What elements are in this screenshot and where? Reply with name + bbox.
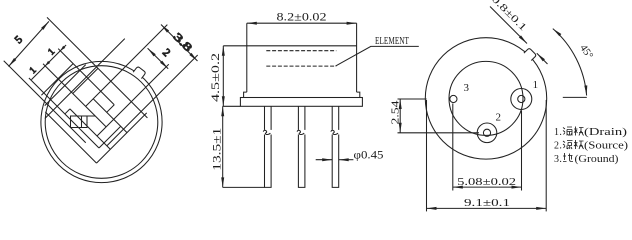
finger cap e [99, 126, 121, 148]
svg-text:3.8: 3.8 [171, 31, 195, 55]
svg-text:φ0.45: φ0.45 [354, 150, 384, 162]
dimension 3.8 line [161, 25, 198, 62]
dimension 2.54 line [399, 99, 401, 133]
pin break symbol 1 [263, 130, 272, 135]
bond pad rectangles [71, 116, 96, 128]
electrode finger row 6 + extension for dim 5 [4, 61, 86, 143]
dim text 4.5 rotated [210, 53, 222, 102]
svg-text:3.: 3. [554, 154, 562, 165]
dimension 9.1 line [427, 207, 547, 209]
dimension 5 (die side) [9, 21, 49, 66]
pitch dim arrowhead a [59, 46, 65, 52]
dimension 2 line [148, 48, 169, 68]
dimension 5.08 extension left [452, 104, 454, 191]
pitch dim text 1 (upper) [47, 47, 58, 58]
svg-text:2.54: 2.54 [391, 100, 402, 125]
dimension 13.5 line [222, 106, 224, 187]
dimension 8.2 line [247, 22, 357, 24]
can outer circle (top view) [41, 61, 162, 182]
dimension 9.1 extension right [545, 100, 547, 211]
pin 1 [518, 95, 525, 102]
svg-text:45°: 45° [577, 43, 594, 61]
orientation tab (left view) [133, 66, 146, 78]
svg-text:1.: 1. [554, 127, 562, 138]
svg-text:3: 3 [463, 82, 469, 94]
can top edge + extension to 4.5 dim [223, 45, 356, 47]
svg-text:0.8±0.1: 0.8±0.1 [489, 0, 529, 34]
pin 1 glass bead [511, 89, 532, 110]
45 degree arc [553, 29, 587, 96]
pin 3 [450, 95, 457, 102]
svg-text:(Drain): (Drain) [584, 127, 627, 138]
fake CJK glyphs for 漏极 / 源极 / 地 [563, 127, 584, 136]
dimension 2.54 extension top [398, 98, 427, 100]
finger cap b + extension line to dim 3.8 [86, 25, 168, 107]
svg-text:(Source): (Source) [584, 141, 628, 152]
13.5 bottom extension to pin [223, 186, 265, 188]
pin 2 [483, 129, 490, 136]
dimension 4.5 line [222, 46, 224, 107]
dimension 9.1 extension left [426, 100, 428, 211]
flange bottom extension to dims [223, 105, 241, 107]
svg-text:5.08±0.02: 5.08±0.02 [457, 176, 516, 188]
electrode inset border segment [73, 68, 98, 93]
pin break symbol 2 [297, 130, 306, 135]
pitch dim arrowhead b [44, 61, 50, 67]
electrode finger row 5 + extension to pitch dim [29, 78, 99, 148]
pin 2 (side view) [298, 106, 305, 187]
dim text 2.54 rotated [391, 100, 402, 125]
svg-text:2: 2 [496, 112, 502, 124]
dim text 13.5 rotated [211, 127, 223, 170]
sensor die (rotated square) with interdigitated electrode pattern [0, 0, 204, 169]
can right side + extension [356, 23, 358, 92]
svg-text:ELEMENT: ELEMENT [375, 36, 409, 47]
electrode finger row 2 [93, 99, 127, 133]
can bottom step left [244, 92, 247, 97]
phi 0.45 dimension arrows [316, 159, 333, 161]
stray electrode lines outside die [45, 65, 86, 106]
dim text 45deg rotated [577, 43, 594, 61]
svg-text:13.5±1: 13.5±1 [211, 127, 223, 170]
dimension 5.08 line [453, 186, 522, 188]
finger cap d [65, 109, 70, 114]
dim 5 text [13, 33, 26, 46]
can left side + extension [246, 23, 248, 92]
dim text 0.8±0.1 rotated 45 [489, 0, 529, 34]
ELEMENT leader line [336, 46, 419, 66]
pin 3 (side view) [332, 106, 339, 187]
finger cap a [107, 105, 115, 113]
svg-text:2: 2 [160, 47, 172, 59]
svg-text:1: 1 [533, 79, 539, 91]
45 degree reference line [563, 96, 587, 98]
finger cap c + extension line to dim 2 [97, 64, 169, 136]
svg-text:5: 5 [13, 33, 26, 46]
package outer circle (bottom view) [425, 38, 546, 159]
pin break symbol 3 [331, 130, 340, 135]
dimension 5.08 extension right [521, 111, 523, 191]
svg-text:(Ground): (Ground) [575, 154, 619, 165]
electrode finger row 1 + extension to pitch dim [58, 49, 114, 105]
electrode finger row 3 + extension to pitch dim [43, 64, 106, 127]
finger pitch dimension line (1,1) [31, 45, 66, 80]
pitch dim text 1 (lower) [28, 66, 39, 77]
can bottom step right [357, 92, 360, 97]
svg-text:2.: 2. [554, 141, 562, 152]
finger cap f + extension line to dim 3.8 [107, 55, 198, 146]
svg-text:8.2±0.02: 8.2±0.02 [277, 12, 327, 24]
dimension 0.8 leader lower [537, 53, 548, 64]
element dashed line 1 [266, 50, 336, 52]
svg-text:9.1±0.1: 9.1±0.1 [464, 197, 510, 209]
flange (header rim) [240, 98, 362, 107]
orientation tab (bottom view) at 45deg [524, 48, 537, 61]
dimension 0.8 leader upper [490, 7, 527, 44]
pin 2 glass bead [477, 123, 497, 143]
pin 1 (side view) [265, 106, 272, 187]
dimension 2.54 extension bottom [398, 132, 480, 134]
electrode finger row 4 [70, 109, 110, 149]
svg-text:4.5±0.2: 4.5±0.2 [210, 53, 222, 102]
element dashed line 2 [266, 65, 336, 67]
can inner rim circle [45, 66, 158, 179]
dim 3.8 text [171, 31, 195, 55]
dim 2 text [160, 47, 172, 59]
header inner circle [449, 61, 523, 135]
